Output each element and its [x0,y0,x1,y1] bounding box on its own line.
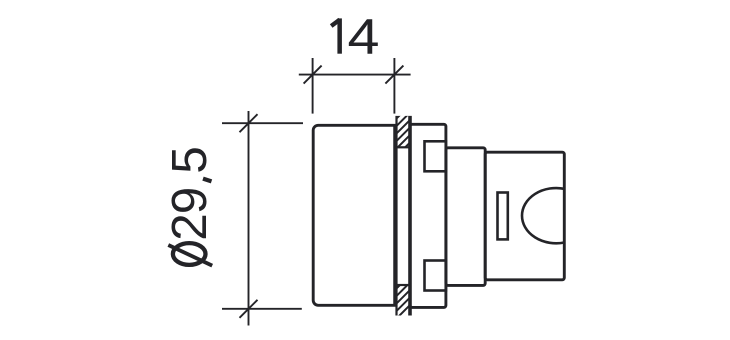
lamp profile curve [522,188,564,243]
dimension text 14 : digit 1 drawn as path (no base serif) [331,18,342,53]
svg-text:29: 29 [162,188,217,241]
svg-text:5: 5 [162,146,217,174]
dimension line 14 [299,74,411,76]
panel front surface line [395,116,397,316]
panel hatching lower [390,270,415,325]
bottom clip [425,261,446,291]
extension line top of Ø29,5 [222,122,303,124]
panel hole bottom edge [395,284,411,286]
panel hatching upper [390,100,415,163]
dimension text Ø29,5 : diameter slash [168,245,212,266]
middle housing section [446,148,485,286]
panel hole top edge [395,146,411,148]
dimension text Ø29,5 : comma [203,179,212,182]
dimension line Ø29,5 [248,111,250,326]
rear housing section [485,152,564,280]
extension line bottom of Ø29,5 [222,308,302,310]
extension line left of 14 [312,58,314,114]
tick right of 14 [385,66,403,84]
bezel front ring [313,125,395,305]
tick top of Ø29,5 [240,114,258,132]
extension line right of 14 [393,58,395,114]
tick bottom of Ø29,5 [240,300,258,318]
dimension text Ø29,5 : diameter circle [173,243,206,265]
top clip [425,141,446,171]
rear slot [498,193,508,240]
panel rear surface / flange face line [408,116,412,316]
svg-text:4: 4 [348,9,380,65]
mounting flange body [410,124,446,307]
tick left of 14 [304,66,322,84]
